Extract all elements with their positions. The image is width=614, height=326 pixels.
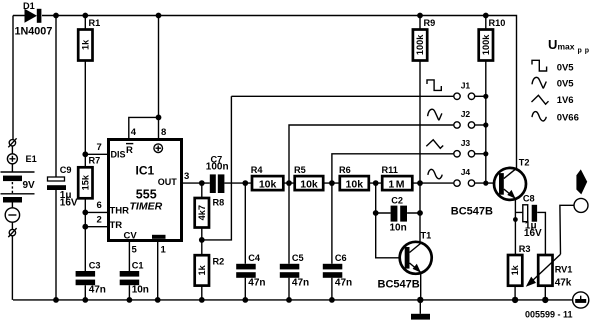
svg-text:THR: THR — [110, 206, 130, 217]
wire R7 top — [84, 154, 86, 167]
diode D1 — [15, 1, 53, 37]
node top rail / R1 — [82, 13, 88, 19]
node C5 / bus — [286, 297, 292, 303]
wire pin3 OUT row — [182, 182, 500, 184]
capacitor C4 — [236, 253, 265, 289]
svg-text:R11: R11 — [382, 165, 398, 175]
svg-text:TIMER: TIMER — [130, 201, 163, 213]
svg-text:J1: J1 — [461, 80, 471, 90]
svg-text:C1: C1 — [132, 260, 144, 270]
node OUT / C2 left — [373, 180, 379, 186]
legend rounded wave — [532, 77, 546, 88]
legend sine wave — [532, 112, 546, 121]
node C1 / bus — [126, 297, 132, 303]
wire T1 emitter to bus — [420, 272, 422, 300]
IC1 reset pin symbol — [126, 144, 133, 156]
legend square wave — [532, 60, 547, 71]
wire T2 emitter down — [514, 198, 516, 255]
svg-text:555: 555 — [136, 188, 157, 202]
svg-text:R9: R9 — [424, 18, 436, 28]
svg-text:R8: R8 — [213, 198, 225, 208]
wire pin5 — [128, 241, 130, 272]
battery clip top — [8, 138, 16, 147]
wire T1 base — [376, 213, 400, 258]
svg-text:R: R — [126, 145, 133, 156]
svg-text:10k: 10k — [346, 178, 364, 190]
svg-text:005599 - 11: 005599 - 11 — [525, 310, 573, 320]
node C6 / bus — [329, 297, 335, 303]
node top rail / pin8 — [156, 13, 162, 19]
svg-text:100k: 100k — [481, 34, 491, 55]
wire J1 row — [231, 95, 453, 97]
svg-text:15k: 15k — [81, 174, 91, 190]
svg-text:2: 2 — [97, 215, 102, 226]
node J3 / R10 column — [483, 151, 488, 156]
node C3 / bus — [82, 297, 88, 303]
svg-text:max: max — [558, 42, 575, 52]
node top rail / R9 — [417, 13, 423, 19]
wire left rail (battery column) — [11, 16, 14, 300]
wire C9 column — [55, 16, 57, 300]
transistor T2 — [451, 158, 530, 218]
svg-text:16V: 16V — [524, 228, 542, 239]
svg-text:10k: 10k — [259, 178, 277, 190]
svg-text:R7: R7 — [89, 156, 101, 166]
ground jack — [573, 292, 589, 308]
svg-text:3: 3 — [184, 171, 189, 182]
svg-text:10n: 10n — [390, 223, 407, 234]
wire R3 bottom — [514, 286, 516, 300]
resistor R2 — [195, 255, 225, 285]
resistor R9 — [413, 18, 435, 61]
svg-text:1M: 1M — [388, 178, 406, 190]
capacitor C9 — [47, 165, 78, 209]
node C2 left — [373, 210, 379, 216]
svg-text:C4: C4 — [248, 253, 261, 263]
wire pin7 DIS — [85, 153, 107, 155]
resistor R4 — [251, 165, 283, 190]
capacitor C2 — [390, 195, 408, 233]
node C4 / bus — [242, 297, 248, 303]
jumper J4 — [454, 167, 475, 186]
node J2 / R10 column — [483, 122, 488, 127]
node top rail / R10 — [483, 13, 489, 19]
resistor R1 — [78, 18, 100, 61]
wire R8 column — [201, 183, 203, 300]
node pin2 — [82, 224, 88, 230]
svg-text:BC547B: BC547B — [451, 206, 493, 218]
resistor R8 — [195, 198, 225, 228]
output jack — [574, 198, 588, 212]
node OUT / C5 / J2 — [286, 180, 292, 186]
capacitor C1 — [120, 260, 149, 295]
node pin6 — [82, 210, 88, 216]
svg-text:1V6: 1V6 — [557, 95, 574, 106]
node RV1 / bus — [542, 297, 548, 303]
svg-text:C9: C9 — [60, 165, 72, 175]
node R1 / pin7 — [82, 151, 88, 157]
capacitor C6 — [323, 253, 352, 289]
svg-text:10k: 10k — [300, 178, 318, 190]
resistor R3 — [508, 244, 531, 286]
svg-text:1k: 1k — [197, 264, 207, 275]
svg-text:0V66: 0V66 — [557, 113, 579, 124]
svg-text:1: 1 — [161, 245, 167, 256]
wire C1 bottom — [128, 285, 130, 300]
node R8/R2/J1 tap — [199, 237, 205, 243]
waveform icon sine J4 — [428, 169, 442, 178]
svg-text:16V: 16V — [60, 198, 78, 209]
svg-text:C3: C3 — [89, 260, 101, 270]
svg-text:OUT: OUT — [158, 177, 178, 187]
node C2 right — [417, 210, 423, 216]
node pin4-pin8 link — [156, 115, 162, 121]
node OUT / R8 — [199, 180, 205, 186]
node J1 / R10 column — [483, 94, 488, 99]
node J4 / R10 column / T2 base — [483, 181, 488, 186]
waveform icon triangle J3 — [426, 140, 443, 149]
svg-text:BC547B: BC547B — [378, 279, 420, 291]
wire C4 column — [244, 183, 246, 300]
svg-text:RV1: RV1 — [555, 265, 573, 275]
svg-text:T1: T1 — [421, 231, 432, 241]
svg-text:IC1: IC1 — [136, 164, 155, 178]
svg-text:R6: R6 — [339, 165, 351, 175]
jumper J1 — [454, 80, 486, 99]
node C9 / bus — [53, 297, 59, 303]
wire C2 row — [376, 183, 420, 242]
transistor T1 — [378, 231, 432, 291]
svg-text:R3: R3 — [519, 244, 531, 254]
svg-text:10n: 10n — [132, 285, 149, 296]
wire pin2 TR — [85, 226, 107, 228]
svg-text:7: 7 — [97, 142, 102, 153]
svg-text:pp: pp — [578, 48, 593, 55]
resistor R10 — [479, 18, 506, 61]
svg-text:T2: T2 — [519, 158, 530, 168]
svg-text:J2: J2 — [461, 109, 471, 119]
battery E1 — [1, 154, 37, 222]
jumper J3 — [454, 138, 486, 157]
capacitor C7 — [206, 154, 229, 193]
op IC1 555 box — [109, 140, 182, 241]
capacitor C8 — [523, 194, 542, 240]
svg-text:1k: 1k — [81, 39, 91, 50]
wire RV1 wiper to output — [560, 205, 574, 254]
legend triangle wave — [532, 95, 549, 104]
wire R7 bottom to C3 — [84, 198, 86, 300]
wire R10 column — [485, 16, 487, 184]
svg-text:U: U — [548, 37, 557, 52]
wire C6 / J3 column — [332, 154, 454, 300]
wire J1 tap to column — [202, 96, 232, 240]
svg-text:9V: 9V — [23, 180, 36, 191]
svg-text:100n: 100n — [206, 161, 229, 172]
svg-text:47n: 47n — [335, 278, 352, 289]
svg-text:5: 5 — [132, 245, 138, 256]
svg-text:C6: C6 — [335, 253, 347, 263]
resistor R11 — [382, 165, 413, 190]
potentiometer RV1 — [526, 254, 573, 288]
jumper J2 — [454, 109, 486, 128]
node pin1 / bus — [155, 297, 161, 303]
svg-text:R1: R1 — [89, 18, 101, 28]
svg-text:0V5: 0V5 — [557, 79, 575, 90]
wire C5 / J2 column — [289, 125, 453, 300]
resistor R5 — [294, 165, 323, 190]
IC1 plus pin symbol — [154, 144, 163, 153]
wire C8 branch — [515, 212, 545, 255]
waveform icon square J1 — [427, 80, 441, 91]
wire top rail — [13, 16, 517, 170]
svg-text:R5: R5 — [294, 165, 306, 175]
svg-text:47n: 47n — [89, 285, 106, 296]
battery clip bottom — [8, 228, 16, 237]
IC1 gnd bar pin1 — [152, 235, 166, 239]
svg-text:0V5: 0V5 — [557, 63, 575, 74]
svg-text:R2: R2 — [213, 257, 225, 267]
svg-text:R4: R4 — [251, 165, 264, 175]
node R3 / bus — [512, 297, 518, 303]
svg-text:6: 6 — [97, 200, 102, 211]
wire bottom bus — [13, 299, 573, 301]
node OUT / C4 — [242, 180, 248, 186]
svg-text:R10: R10 — [489, 18, 506, 28]
svg-text:1k: 1k — [510, 264, 520, 275]
wire R1 column — [84, 16, 86, 155]
resistor R7 — [78, 156, 100, 199]
wire R9 column — [419, 16, 421, 184]
node OUT / R9 / C2 right — [417, 180, 423, 186]
svg-text:47k: 47k — [555, 278, 572, 289]
wire pin6 THR — [85, 211, 107, 213]
svg-text:J3: J3 — [461, 138, 471, 148]
wire pin1 — [157, 241, 159, 300]
svg-text:C8: C8 — [523, 194, 535, 204]
svg-text:E1: E1 — [26, 154, 37, 164]
ground — [411, 300, 430, 320]
wire RV1 bottom — [544, 286, 546, 300]
svg-text:4k7: 4k7 — [197, 205, 207, 220]
output arrow — [576, 169, 587, 194]
node top rail / C9 — [53, 13, 59, 19]
legend Umax pp — [548, 37, 592, 55]
resistor R6 — [339, 165, 369, 190]
svg-text:8: 8 — [161, 127, 166, 138]
wire pin4/pin8 top — [129, 16, 159, 140]
svg-text:DIS: DIS — [111, 150, 126, 160]
node T1 emitter / bus — [417, 297, 423, 303]
svg-text:47n: 47n — [248, 278, 265, 289]
node OUT / C6 / J3 — [329, 180, 335, 186]
svg-text:1N4007: 1N4007 — [15, 25, 53, 37]
node T2 emitter / C8 branch — [513, 217, 518, 222]
svg-text:J4: J4 — [461, 167, 471, 177]
svg-text:100k: 100k — [415, 34, 425, 55]
svg-text:47n: 47n — [292, 278, 309, 289]
capacitor C3 — [76, 260, 106, 295]
svg-text:D1: D1 — [23, 1, 35, 11]
capacitor C5 — [280, 253, 309, 289]
node R2 / bus — [199, 297, 205, 303]
svg-text:4: 4 — [131, 127, 137, 138]
svg-text:TR: TR — [110, 220, 123, 231]
waveform icon rounded J2 — [428, 109, 442, 120]
svg-text:C2: C2 — [391, 195, 403, 205]
svg-text:C5: C5 — [292, 253, 304, 263]
svg-text:CV: CV — [124, 231, 138, 242]
